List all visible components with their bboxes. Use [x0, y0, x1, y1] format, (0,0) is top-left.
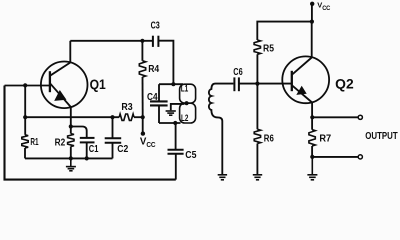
svg-text:R2: R2 — [55, 137, 66, 148]
node coil center tap — [185, 101, 189, 105]
ground (tank tap) — [166, 111, 176, 115]
resistor R4 — [141, 41, 143, 61]
transistor Q1 circle — [41, 62, 88, 109]
node emitter-output junction — [310, 115, 314, 119]
resistor R2 — [68, 134, 74, 147]
wire tank top — [159, 83, 183, 85]
wire collector rail — [70, 40, 152, 42]
svg-text:C3: C3 — [151, 20, 161, 31]
svg-text:R1: R1 — [30, 137, 38, 148]
transistor Q1 emitter arrow (PNP) — [54, 90, 66, 101]
wire tank left bottom — [158, 105, 160, 123]
svg-text:R7: R7 — [319, 134, 331, 145]
transistor Q1 emitter stroke — [50, 83, 71, 107]
svg-text:Q2: Q2 — [335, 77, 354, 92]
transistor Q1 base bar — [49, 71, 51, 92]
power Vcc terminal (top) — [310, 2, 314, 6]
wire tank left top — [158, 84, 160, 101]
output terminal top — [358, 115, 362, 119]
resistor R5 — [256, 54, 258, 83]
node R5-R6-base junction — [255, 82, 259, 86]
power Vcc terminal (mid) — [141, 131, 145, 135]
wire Q2 emitter — [311, 103, 313, 118]
node C1-ground junction — [85, 156, 89, 160]
resistor R1 branch wire — [24, 85, 26, 134]
transistor Q2 emitter stroke — [292, 85, 312, 102]
wire Q1 base — [5, 85, 50, 87]
svg-text:R3: R3 — [121, 102, 133, 113]
node R3-R4-Vcc junction — [141, 115, 145, 119]
node C3-tank junction — [171, 82, 175, 86]
svg-text:C5: C5 — [185, 150, 197, 161]
resistor R1 — [22, 135, 28, 148]
svg-text:C4: C4 — [147, 92, 158, 103]
node Vcc rail junction — [310, 20, 314, 24]
svg-text:OUTPUT: OUTPUT — [365, 130, 398, 142]
node emitter-C1 junction — [69, 124, 73, 128]
svg-text:R6: R6 — [264, 134, 274, 145]
node rail-R4 junction — [140, 39, 144, 43]
wire ground bus — [25, 157, 113, 159]
resistor R6 — [256, 84, 258, 130]
inductor L1 loop — [180, 84, 196, 103]
wire output top — [312, 116, 358, 118]
inductor L2 loop — [180, 103, 196, 123]
wire center tap — [171, 104, 185, 110]
ground (R2 bus) — [66, 158, 76, 170]
wire C1 branch — [71, 127, 87, 138]
wire feedback loop (base to tank bottom) — [5, 86, 176, 180]
svg-text:CC: CC — [322, 5, 331, 12]
wire output bottom — [312, 156, 358, 158]
transistor Q2 emitter arrow (PNP) — [296, 86, 306, 95]
node R3-C2 junction — [110, 115, 114, 119]
capacitor C2 plates — [105, 137, 122, 139]
transistor Q1 collector stroke — [50, 63, 70, 76]
capacitor C4 plates — [150, 100, 168, 102]
ground (R6) — [253, 175, 262, 180]
wire tank to C5 — [175, 123, 177, 149]
node tank-C5 junction — [173, 121, 177, 125]
node R1-base junction — [23, 83, 27, 87]
transistor Q2 base bar — [291, 71, 293, 91]
capacitor C3 plates — [152, 36, 154, 47]
wire Vcc stem — [142, 117, 144, 132]
wire C6 to Q2 base — [239, 83, 292, 85]
svg-text:Q1: Q1 — [90, 77, 107, 92]
wire C3 to tank top — [158, 41, 173, 84]
wire Q1 collector — [69, 41, 71, 63]
wire tank bottom — [159, 122, 181, 124]
node R1-R3 junction — [23, 115, 27, 119]
capacitor C5 plates — [168, 149, 184, 151]
wire Q2 collector — [311, 22, 313, 58]
node R2-ground junction — [69, 156, 73, 160]
ground (secondary) — [218, 175, 227, 180]
resistor R3 — [119, 114, 134, 120]
wire C2 bottom — [112, 143, 114, 159]
capacitor C1 plates — [80, 137, 95, 139]
svg-text:C1: C1 — [89, 144, 99, 155]
wire Q1 emitter — [70, 107, 72, 134]
inductor secondary winding — [209, 84, 234, 174]
node R7-ground junction — [310, 155, 314, 159]
transistor Q2 circle — [282, 56, 329, 103]
wire Vcc stem (top) — [311, 4, 313, 22]
svg-text:L2: L2 — [181, 113, 188, 123]
svg-text:C6: C6 — [233, 67, 243, 78]
svg-text:CC: CC — [146, 140, 155, 149]
resistor R7 — [311, 117, 313, 129]
capacitor C6 plates — [233, 77, 235, 91]
ground (Q2 emitter) — [307, 157, 317, 180]
wire R1 to R3 — [25, 116, 119, 118]
svg-text:R5: R5 — [263, 44, 274, 55]
svg-text:C2: C2 — [117, 144, 128, 155]
output terminal bottom — [358, 155, 362, 159]
wire C2 branch — [112, 117, 114, 137]
wire C1 bottom — [86, 142, 88, 158]
wire C5 bottom — [175, 154, 177, 180]
transistor Q2 collector stroke — [292, 58, 312, 75]
svg-text:R4: R4 — [148, 64, 159, 75]
svg-text:L1: L1 — [181, 83, 189, 93]
